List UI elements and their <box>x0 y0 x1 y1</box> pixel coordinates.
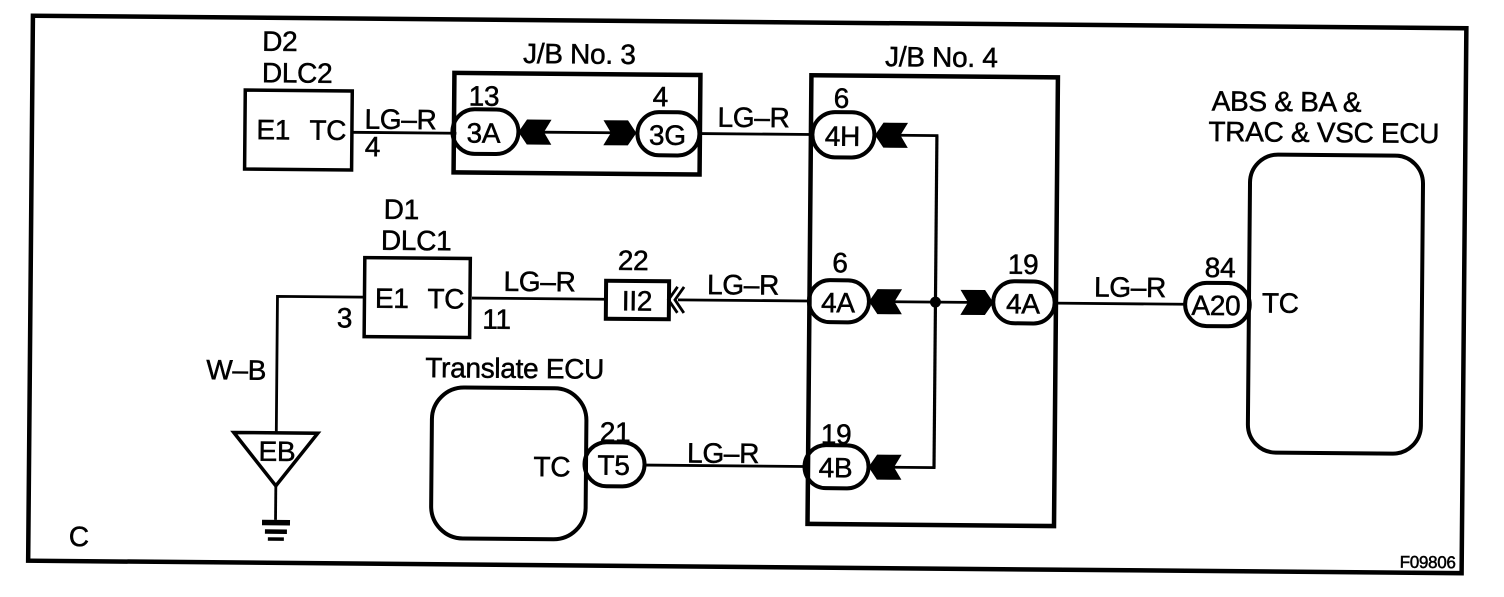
svg-text:3: 3 <box>337 302 353 333</box>
wire left 4A to right 4A <box>894 300 968 303</box>
svg-text:D2: D2 <box>262 26 297 57</box>
svg-text:Translate ECU: Translate ECU <box>425 352 604 385</box>
svg-text:TC: TC <box>427 283 464 314</box>
wire D1 E1 to ground branch <box>276 296 363 433</box>
junction block J/B No. 3 box <box>454 73 701 175</box>
connector 4B <box>804 445 868 489</box>
svg-text:TC: TC <box>533 451 570 482</box>
connector T5 <box>584 442 644 487</box>
wire D1 TC to II2 <box>472 298 606 299</box>
svg-text:84: 84 <box>1205 252 1236 283</box>
svg-text:4: 4 <box>365 131 381 162</box>
svg-text:LG–R: LG–R <box>503 266 575 298</box>
svg-text:DLC2: DLC2 <box>262 57 333 89</box>
svg-text:DLC1: DLC1 <box>381 225 452 257</box>
wire II2 to 4A <box>678 300 809 301</box>
connector D2 DLC2 box <box>245 90 353 170</box>
chevron mark 2 at II2 <box>675 287 684 313</box>
svg-text:LG–R: LG–R <box>717 102 789 134</box>
svg-text:19: 19 <box>1008 249 1039 280</box>
connector 3A <box>452 109 518 154</box>
arrowhead into 4H <box>875 123 908 148</box>
svg-text:E1: E1 <box>375 283 409 314</box>
svg-text:4H: 4H <box>825 121 860 152</box>
svg-text:11: 11 <box>482 304 511 335</box>
arrowhead into left 4A <box>869 289 902 314</box>
svg-text:J/B No. 3: J/B No. 3 <box>523 38 636 70</box>
svg-text:3A: 3A <box>466 118 501 149</box>
svg-text:4B: 4B <box>819 452 853 483</box>
arrowhead into 3G <box>603 120 636 145</box>
connector II2 box <box>606 281 669 320</box>
wire 4H arrow to bus <box>900 134 938 137</box>
svg-text:T5: T5 <box>597 450 629 481</box>
svg-text:C: C <box>69 521 89 552</box>
svg-text:LG–R: LG–R <box>1094 271 1166 303</box>
svg-text:D1: D1 <box>384 194 419 225</box>
Translate ECU box <box>431 387 587 539</box>
connector A20 <box>1185 283 1250 327</box>
wire 3A to 3G <box>543 131 611 134</box>
svg-text:4A: 4A <box>821 287 856 318</box>
svg-text:13: 13 <box>469 81 500 112</box>
svg-text:4A: 4A <box>1006 288 1041 319</box>
svg-text:EB: EB <box>258 436 295 467</box>
svg-text:TC: TC <box>309 115 346 146</box>
junction dot node <box>930 297 941 308</box>
wire T5 to 4B <box>645 465 805 466</box>
arrowhead into right 4A <box>960 290 993 315</box>
connector 4A right <box>993 281 1055 324</box>
ABS & BA & TRAC & VSC ECU box <box>1248 154 1424 453</box>
svg-text:TC: TC <box>1262 287 1299 318</box>
svg-text:W–B: W–B <box>206 354 266 386</box>
wire D2 TC to 3A <box>352 131 456 135</box>
wire 4A to A20 <box>1054 303 1185 304</box>
svg-text:TRAC & VSC ECU: TRAC & VSC ECU <box>1208 116 1439 149</box>
svg-text:LG–R: LG–R <box>707 269 779 301</box>
svg-text:F09806: F09806 <box>1400 553 1456 572</box>
ground triangle EB <box>233 432 317 486</box>
svg-text:II2: II2 <box>622 285 653 316</box>
svg-text:4: 4 <box>653 81 669 112</box>
connector 4H <box>812 112 874 158</box>
wire 3G to 4H <box>700 132 812 136</box>
junction block J/B No. 4 box <box>808 75 1058 526</box>
svg-text:A20: A20 <box>1191 290 1240 321</box>
wire 4B arrow to bus <box>894 466 936 469</box>
svg-text:J/B No. 4: J/B No. 4 <box>885 41 998 73</box>
ground symbol <box>262 520 290 526</box>
svg-text:6: 6 <box>832 247 848 278</box>
svg-text:3G: 3G <box>649 120 686 151</box>
arrowhead into 3A <box>518 119 551 144</box>
chevron mark 1 at II2 <box>668 287 677 313</box>
svg-text:22: 22 <box>618 245 649 276</box>
svg-text:E1: E1 <box>256 114 290 145</box>
connector 3G <box>637 112 699 156</box>
svg-text:LG–R: LG–R <box>687 437 759 469</box>
connector D1 DLC1 box <box>364 258 470 338</box>
svg-text:ABS & BA &: ABS & BA & <box>1212 86 1362 118</box>
vertical bus wire in J/B No. 4 <box>934 136 937 468</box>
svg-text:6: 6 <box>834 83 850 114</box>
connector 4A left <box>809 280 869 323</box>
arrowhead into 4B <box>868 455 901 480</box>
wire EB to ground <box>274 486 277 520</box>
